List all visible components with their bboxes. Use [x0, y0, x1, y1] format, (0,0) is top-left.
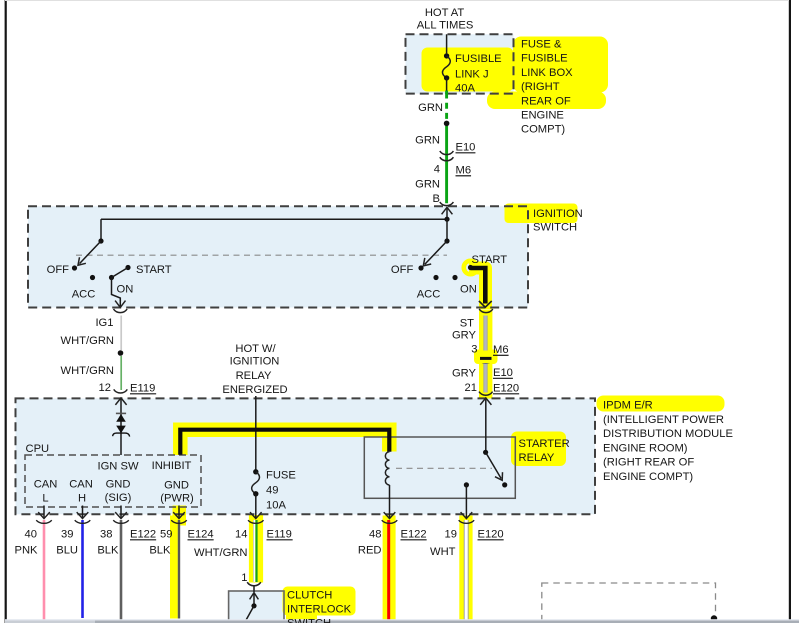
svg-text:39: 39	[61, 529, 73, 541]
svg-text:14: 14	[235, 529, 247, 541]
svg-text:GRY: GRY	[452, 368, 477, 380]
svg-text:38: 38	[100, 529, 112, 541]
svg-text:COMPT): COMPT)	[521, 124, 565, 136]
svg-text:M6: M6	[456, 165, 472, 177]
svg-text:E124: E124	[188, 529, 214, 541]
svg-text:ACC: ACC	[72, 289, 96, 301]
svg-text:(RIGHT REAR OF: (RIGHT REAR OF	[603, 457, 694, 469]
svg-text:IG1: IG1	[95, 317, 113, 329]
svg-text:ENERGIZED: ENERGIZED	[222, 384, 287, 396]
svg-text:GND: GND	[106, 479, 131, 491]
svg-text:IGNITION: IGNITION	[533, 208, 583, 220]
svg-text:GRN: GRN	[415, 179, 440, 191]
svg-text:ON: ON	[117, 284, 134, 296]
svg-text:19: 19	[445, 529, 457, 541]
svg-text:WHT/GRN: WHT/GRN	[61, 335, 114, 347]
svg-text:STARTER: STARTER	[519, 438, 570, 450]
svg-text:49: 49	[266, 485, 278, 497]
svg-text:RED: RED	[358, 545, 382, 557]
svg-text:40: 40	[25, 529, 37, 541]
svg-text:FUSIBLE: FUSIBLE	[521, 53, 568, 65]
svg-text:IGNITION: IGNITION	[230, 356, 280, 368]
svg-text:WHT/GRN: WHT/GRN	[61, 365, 114, 377]
svg-text:12: 12	[99, 382, 111, 394]
svg-text:GRN: GRN	[415, 135, 440, 147]
svg-text:WHT: WHT	[430, 546, 456, 558]
svg-text:INHIBIT: INHIBIT	[152, 460, 192, 472]
svg-text:RELAY: RELAY	[519, 452, 555, 464]
svg-text:DISTRIBUTION MODULE: DISTRIBUTION MODULE	[603, 428, 733, 440]
svg-text:CAN: CAN	[69, 479, 93, 491]
svg-text:HOT AT: HOT AT	[425, 7, 465, 19]
svg-text:(SIG): (SIG)	[105, 492, 132, 504]
svg-text:ALL TIMES: ALL TIMES	[417, 20, 474, 32]
svg-text:IGN SW: IGN SW	[97, 461, 138, 473]
svg-text:START: START	[136, 264, 172, 276]
svg-text:(INTELLIGENT POWER: (INTELLIGENT POWER	[603, 414, 724, 426]
svg-text:START: START	[472, 254, 508, 266]
svg-text:ENGINE: ENGINE	[521, 110, 564, 122]
svg-text:E120: E120	[493, 383, 519, 395]
svg-text:GND: GND	[164, 480, 189, 492]
svg-text:E10: E10	[493, 367, 513, 379]
svg-text:GRN: GRN	[418, 102, 443, 114]
svg-text:1: 1	[241, 572, 247, 584]
svg-text:CLUTCH: CLUTCH	[287, 590, 332, 602]
svg-text:E120: E120	[478, 529, 504, 541]
svg-text:HOT W/: HOT W/	[235, 343, 276, 355]
svg-text:M6: M6	[493, 344, 509, 356]
svg-text:WHT/GRN: WHT/GRN	[194, 547, 247, 559]
svg-text:FUSE: FUSE	[266, 470, 296, 482]
svg-text:LINK J: LINK J	[455, 69, 489, 81]
svg-text:SWITCH: SWITCH	[287, 618, 331, 623]
svg-text:ENGINE COMPT): ENGINE COMPT)	[603, 471, 693, 483]
svg-text:GRY: GRY	[452, 330, 477, 342]
svg-text:ST: ST	[460, 318, 474, 330]
svg-text:OFF: OFF	[47, 264, 70, 276]
svg-text:RELAY: RELAY	[236, 370, 272, 382]
svg-text:10A: 10A	[266, 500, 286, 512]
svg-text:E119: E119	[130, 383, 155, 395]
svg-text:H: H	[78, 493, 86, 505]
svg-text:BLK: BLK	[149, 545, 171, 557]
svg-text:OFF: OFF	[391, 264, 414, 276]
svg-text:40A: 40A	[455, 83, 475, 95]
svg-text:48: 48	[369, 529, 381, 541]
svg-text:E122: E122	[130, 529, 156, 541]
svg-text:BLU: BLU	[56, 545, 78, 557]
svg-text:ON: ON	[460, 284, 477, 296]
svg-text:IPDM E/R: IPDM E/R	[603, 400, 653, 412]
svg-text:FUSIBLE: FUSIBLE	[455, 53, 502, 65]
svg-text:4: 4	[434, 164, 440, 176]
svg-text:ACC: ACC	[417, 289, 441, 301]
svg-text:REAR OF: REAR OF	[521, 95, 571, 107]
svg-text:E119: E119	[267, 529, 292, 541]
svg-text:E122: E122	[401, 529, 427, 541]
svg-text:INTERLOCK: INTERLOCK	[287, 604, 352, 616]
svg-text:PNK: PNK	[14, 545, 38, 557]
svg-text:E10: E10	[456, 142, 476, 154]
svg-text:L: L	[42, 493, 48, 505]
svg-text:CAN: CAN	[34, 479, 58, 491]
svg-text:(PWR): (PWR)	[160, 493, 194, 505]
svg-text:21: 21	[465, 382, 477, 394]
svg-text:CPU: CPU	[26, 443, 50, 455]
svg-text:BLK: BLK	[97, 545, 119, 557]
svg-text:3: 3	[471, 344, 477, 356]
svg-text:FUSE &: FUSE &	[521, 39, 562, 51]
svg-text:SWITCH: SWITCH	[533, 222, 577, 234]
svg-text:59: 59	[160, 529, 172, 541]
svg-text:ENGINE ROOM): ENGINE ROOM)	[603, 442, 688, 454]
svg-text:(RIGHT: (RIGHT	[521, 81, 560, 93]
svg-text:B: B	[433, 193, 440, 205]
svg-text:LINK BOX: LINK BOX	[521, 67, 573, 79]
